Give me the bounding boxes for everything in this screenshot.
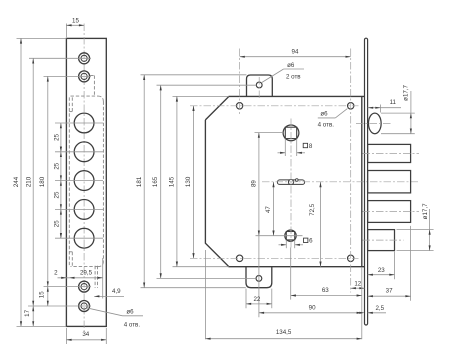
deadbolt 3 (368, 201, 411, 223)
dim 210 (29, 57, 91, 59)
svg-text:2: 2 (54, 269, 58, 276)
dim 15 bottom (47, 287, 49, 306)
svg-text:37: 37 (386, 287, 393, 294)
dim 2,5 (368, 312, 386, 314)
aux bolt axis (363, 239, 404, 241)
svg-text:210: 210 (25, 176, 32, 187)
large hole 2 (74, 142, 94, 162)
svg-text:6: 6 (309, 238, 313, 245)
dim 17 (32, 306, 34, 326)
centerline holes top row (190, 105, 359, 107)
top tab hole (256, 82, 262, 88)
svg-text:34: 34 (82, 331, 89, 338)
dim 181 (141, 74, 247, 76)
dim 22 (245, 289, 247, 309)
faceplate edge view (365, 38, 368, 325)
dim 180 (44, 75, 92, 77)
deadbolt 3 axis (363, 211, 420, 213)
svg-text:181: 181 (136, 176, 143, 187)
screw hole top 1 (79, 53, 90, 64)
svg-text:63: 63 (322, 287, 329, 294)
dim 63 (290, 248, 292, 300)
leader hole label (87, 308, 123, 316)
large hole 3 (74, 171, 94, 191)
dim 37 (410, 226, 412, 301)
hidden lip notch top (71, 97, 73, 111)
svg-text:180: 180 (39, 176, 46, 187)
svg-text:ø17,7: ø17,7 (422, 203, 429, 219)
ext line lower square (256, 235, 303, 237)
svg-text:25: 25 (53, 133, 60, 140)
spindle hole circle (283, 125, 299, 141)
dim 2 and 29,5 (58, 277, 103, 279)
svg-text:22: 22 (253, 296, 260, 303)
centerline top tab hole (258, 77, 260, 100)
hidden lip notch bottom (71, 252, 73, 267)
lever link (277, 180, 304, 185)
svg-text:15: 15 (39, 291, 46, 298)
spindle square 8 (285, 127, 296, 138)
svg-text:15: 15 (72, 17, 79, 24)
svg-text:130: 130 (185, 176, 192, 187)
dim 12 (351, 287, 365, 289)
deadbolt 1 axis (363, 152, 420, 154)
centerline main axis (262, 181, 419, 183)
lock body outline (205, 96, 364, 266)
dim 130 (193, 106, 195, 258)
case hole bottom-right (348, 255, 354, 261)
dim dia17,7 bolt (397, 229, 434, 231)
svg-text:ø6: ø6 (287, 62, 295, 69)
bottom mounting tab (246, 267, 272, 288)
dim 4,9 (94, 295, 124, 297)
dim 72,5 (320, 182, 322, 267)
svg-text:47: 47 (265, 206, 272, 213)
svg-text:11: 11 (390, 99, 397, 106)
hidden lines below (94, 266, 96, 288)
large hole 1 (74, 113, 94, 133)
leader top tab (261, 69, 283, 83)
svg-text:90: 90 (309, 305, 316, 312)
svg-text:29,5: 29,5 (80, 270, 93, 277)
svg-text:165: 165 (152, 176, 159, 187)
deadbolt 2 (368, 171, 411, 193)
svg-text:94: 94 (292, 49, 299, 56)
screw hole top 2 (79, 71, 90, 82)
dim dia17,7 latch (381, 112, 415, 114)
deadbolt 1 (368, 144, 411, 162)
faceplate front view outline (66, 38, 106, 326)
svg-text:25: 25 (53, 162, 60, 169)
dim 89 (255, 132, 284, 134)
svg-text:4 отв.: 4 отв. (124, 322, 141, 329)
centerline spindle vertical (290, 119, 292, 248)
leader case holes (335, 109, 347, 118)
dim 47 (273, 182, 275, 236)
dim 244 (17, 37, 67, 39)
svg-text:12: 12 (354, 280, 361, 287)
dim 165 (157, 84, 257, 86)
lower square hole circle (285, 230, 296, 241)
latch axis (356, 122, 391, 124)
svg-text:2 отв: 2 отв (286, 73, 301, 80)
dim square8 (284, 139, 286, 156)
dim 145 (173, 95, 229, 97)
dim 11 (380, 105, 382, 113)
dim 34 (65, 328, 67, 344)
dim 94 (240, 56, 351, 58)
svg-text:8: 8 (309, 143, 313, 150)
svg-text:25: 25 (53, 191, 60, 198)
bottom tab hole (256, 276, 262, 282)
svg-text:23: 23 (378, 267, 385, 274)
screw hole bottom 1 (79, 281, 90, 292)
dim 134,5 (204, 250, 206, 339)
case hole top-left (236, 103, 242, 109)
svg-text:134,5: 134,5 (276, 329, 292, 336)
hidden body edge right (102, 102, 104, 262)
large hole 4 (74, 200, 94, 220)
centerline holes bottom row (190, 257, 359, 259)
large hole 5 (74, 228, 94, 248)
lower square 6 (286, 232, 294, 240)
hidden bent lip line (68, 97, 70, 266)
svg-text:ø17,7: ø17,7 (403, 84, 410, 100)
dim square6 (285, 240, 287, 248)
svg-text:ø6: ø6 (320, 111, 328, 118)
dim 90 (259, 312, 362, 314)
case hole top-right (348, 103, 354, 109)
dim chain 25x4 (60, 123, 62, 238)
dim 23 (394, 252, 396, 280)
screw hole bottom 2 (79, 301, 90, 312)
faceplate vertical centerline (83, 24, 85, 332)
svg-text:4,9: 4,9 (112, 288, 121, 295)
latch bolt ellipse (368, 113, 381, 134)
svg-text:89: 89 (251, 180, 258, 187)
svg-text:145: 145 (169, 176, 176, 187)
svg-text:72,5: 72,5 (309, 203, 316, 216)
svg-text:244: 244 (13, 176, 20, 187)
case hole bottom-left (236, 255, 242, 261)
centerline hole col left (239, 49, 241, 115)
dim 15 top (65, 24, 67, 38)
svg-text:25: 25 (53, 220, 60, 227)
svg-text:4 отв.: 4 отв. (318, 121, 335, 128)
centerline hole col right (350, 49, 352, 293)
svg-text:2,5: 2,5 (375, 305, 384, 312)
hidden body edge top (90, 75, 94, 77)
svg-text:17: 17 (24, 309, 31, 316)
aux bolt 4 (368, 230, 395, 251)
svg-text:ø6: ø6 (126, 308, 134, 315)
top mounting tab (247, 75, 273, 96)
